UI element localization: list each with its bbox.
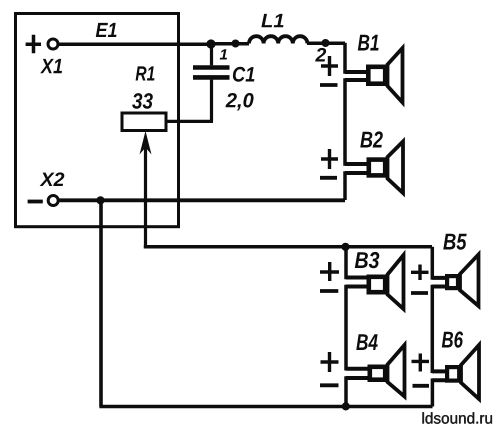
node 1 junction dot [206,39,215,48]
speaker B5 [447,255,478,307]
minus sign B5 [411,291,428,295]
speaker B3 leads [346,278,369,287]
R1 wiper arrow [140,131,152,247]
wire node 1 to L1 [212,42,249,46]
plus sign B1 [321,56,338,76]
junction dot bottom wire [342,402,350,410]
label X1 [40,59,62,73]
B3B4 series rail upper segment [344,247,348,279]
minus sign B3 [320,289,338,293]
plus sign B3 [320,262,339,281]
plus sign at X1 [26,35,41,54]
capacitor C1 bottom lead [210,80,213,122]
minus sign at X2 [28,200,43,204]
label B3 [355,252,380,268]
resistor R1 body [122,113,166,131]
terminal block E1 box [16,14,179,227]
label C1 [233,67,255,82]
terminal X2 [48,196,58,206]
label E1 [96,23,117,37]
B5B6 series rail upper segment [431,247,435,280]
label R1 [136,66,155,80]
plus sign B6 [412,354,430,372]
node 2 junction dot [322,39,330,47]
minus bus vertical wire [99,200,103,407]
wire C1 to R1 [166,120,213,123]
wire X2 to B1B2 rail [60,198,346,202]
speaker B1 [368,48,402,103]
wire L1 to node 2 [307,41,345,45]
label L1 [261,14,283,27]
label B5 [443,234,466,250]
plus sign B4 [321,352,339,372]
label B6 [442,331,463,347]
pin label 2 [315,48,326,62]
label X2 [40,172,65,186]
minus sign B4 [320,383,339,387]
watermark ldsound.ru [423,412,493,423]
B3B4 series rail lower segment [344,376,348,406]
speaker B6 [447,345,479,399]
plus sign B2 [321,149,338,169]
terminal X1 [48,39,58,49]
inductor L1 coil [249,36,307,43]
label B2 [360,131,383,147]
B3B4 series rail middle segment [344,285,348,371]
B1B2 series rail middle segment [343,78,347,166]
speaker B2 [369,142,403,194]
label B1 [358,35,379,51]
tap wire from R1 arrow [146,245,433,246]
plus sign B5 [411,265,429,281]
junction dot on X2 wire [96,196,104,204]
capacitor C1 plates [193,68,230,78]
minus bus bottom wire [99,405,432,409]
speaker B6 leads [432,371,447,380]
pin label 1 [220,49,227,59]
minus sign B2 [320,176,337,180]
wire X1 to node 1 [59,42,212,46]
speaker B4 leads [346,369,370,378]
label B4 [356,334,377,350]
B5B6 series rail middle segment [431,285,435,373]
speaker B3 [369,255,404,309]
speaker B2 leads [345,164,369,173]
value 2,0 [226,93,254,111]
speaker B4 [370,345,405,397]
junction dot tap wire [341,243,349,251]
B5B6 series rail lower segment [431,378,435,406]
value 33 [132,93,153,109]
capacitor C1 top lead [210,44,213,65]
L1 terminal dot [232,40,240,48]
speaker B5 leads [432,278,447,287]
B1B2 series rail upper segment [343,43,347,74]
minus sign B1 [320,83,338,87]
B1B2 series rail lower segment [343,171,347,200]
minus sign B6 [413,384,430,388]
speaker B1 leads [345,72,369,80]
